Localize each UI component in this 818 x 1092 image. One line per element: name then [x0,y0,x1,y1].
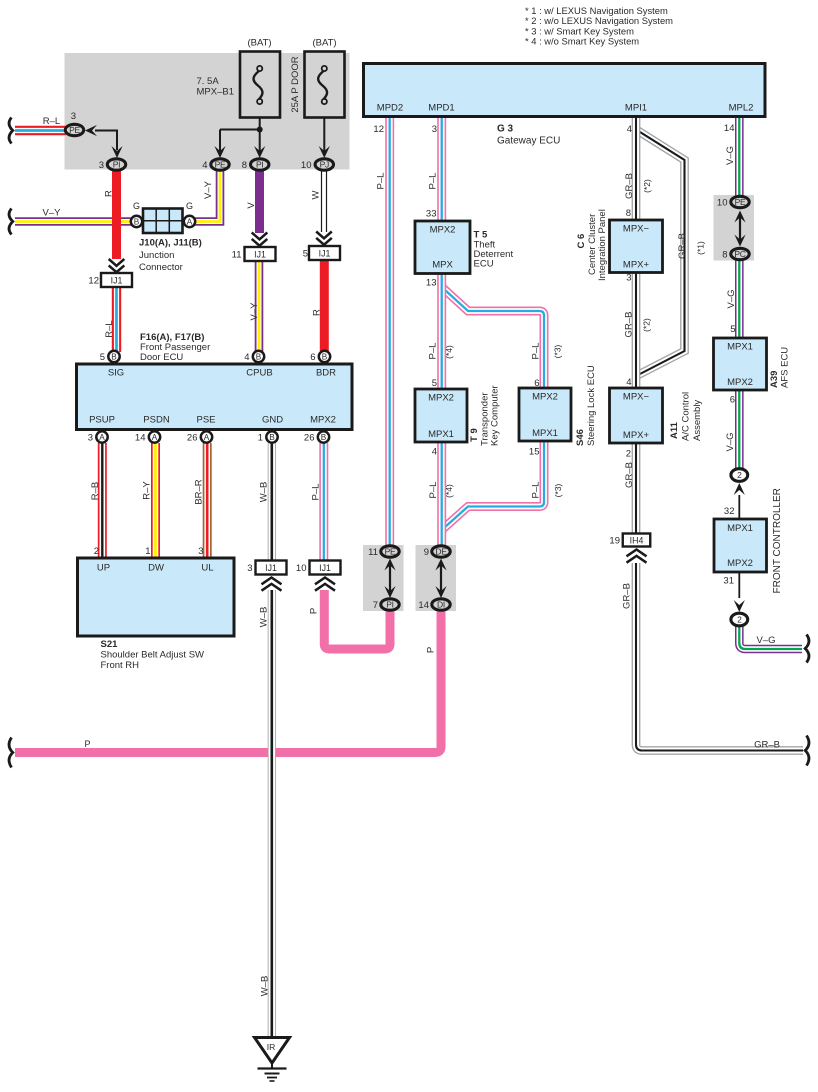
svg-text:6: 6 [730,395,735,406]
svg-text:PI: PI [113,160,120,170]
svg-text:B: B [256,353,262,362]
svg-text:(BAT): (BAT) [312,38,336,49]
wire link PE (3) to PI (3) [95,131,117,151]
connector PI (3) [107,159,125,170]
svg-text:PE: PE [215,160,226,170]
wire V-G from A39 MPX2 to connector 2 [735,390,744,468]
svg-text:IJ1: IJ1 [319,248,331,258]
svg-text:B: B [134,218,140,227]
svg-text:V–Y: V–Y [249,302,260,321]
svg-text:12: 12 [88,276,99,287]
junction dot [257,127,263,133]
svg-text:DW: DW [148,563,164,574]
svg-text:PE: PE [735,197,746,207]
junction connector pin A [184,216,195,227]
svg-text:IJ1: IJ1 [265,563,277,573]
wire V-G from gateway MPL2 to PE (10) [735,118,744,196]
svg-text:IJ1: IJ1 [111,275,123,285]
connector PE (10) [731,196,749,207]
svg-text:(*4): (*4) [444,345,454,359]
svg-text:(*2): (*2) [642,318,652,332]
svg-text:25A P DOOR: 25A P DOOR [290,56,301,112]
svg-text:2: 2 [626,449,631,460]
wire R from IJ1 (5) to ECU pin 6 [320,260,329,352]
svg-text:11: 11 [368,547,378,558]
transponder key computer T9 box [415,389,467,442]
page continuation R-L [9,118,13,144]
svg-text:CPUB: CPUB [246,368,272,379]
connector IJ1 (5) [309,246,340,260]
connector PE (11) [381,546,399,557]
svg-text:PI: PI [256,160,263,170]
svg-text:PE: PE [69,125,80,135]
svg-text:A: A [152,433,158,442]
svg-text:(*2): (*2) [642,179,652,193]
svg-text:P–L: P–L [428,343,439,360]
fuse 25A P DOOR [305,52,345,118]
page continuation P [9,738,13,768]
svg-text:V–G: V–G [725,432,736,451]
connector pass-through block PE/PI (gray background) [363,545,404,611]
arrow into connector 2 lower [734,600,745,612]
link FRONT CONTROLLER pin 31 to connector 2 [738,572,740,598]
connector 2 upper [731,469,748,482]
link PE (10) to PC (8) [739,214,741,243]
svg-text:DI: DI [437,600,445,610]
svg-text:PSUP: PSUP [89,415,115,426]
svg-text:2: 2 [737,470,742,480]
svg-text:B: B [269,433,275,442]
svg-text:5: 5 [303,249,308,260]
svg-text:GR–B: GR–B [754,740,780,751]
svg-text:31: 31 [723,576,734,587]
svg-text:V–G: V–G [725,146,736,165]
wire P from IJ1 (10) to PI (7) [324,590,390,649]
junction connector J10/J11 [143,209,183,234]
A/C control assembly A11 box [610,388,663,443]
svg-text:P: P [84,739,90,749]
svg-text:B: B [322,353,328,362]
svg-text:Shoulder Belt Adjust SW: Shoulder Belt Adjust SW [101,650,205,661]
wire P-L from gateway MPD2 to PE (11) [385,118,394,546]
svg-text:Front RH: Front RH [101,660,140,671]
svg-text:3: 3 [99,160,104,171]
svg-text:MPX1: MPX1 [727,523,753,534]
chevron below IH4 [627,550,647,563]
svg-text:S46: S46 [575,429,586,446]
svg-text:10: 10 [301,160,312,171]
arrow into PC (8) [734,235,745,247]
svg-text:DE: DE [435,547,447,557]
chevron below IJ1 (10) [315,578,335,591]
svg-text:GND: GND [262,415,283,426]
shoulder belt adjust switch S21 box [78,558,235,636]
svg-text:(*3): (*3) [553,483,563,497]
svg-text:Door ECU: Door ECU [140,352,183,363]
arrow into PE (10) [734,211,745,223]
fuse 7.5A MPX-B1 [240,52,280,118]
svg-text:4: 4 [626,377,631,388]
svg-text:MPX1: MPX1 [428,429,454,440]
svg-text:IH4: IH4 [630,535,644,545]
svg-text:UP: UP [97,563,110,574]
wire GR-B from A11 MPX+ to IH4 [632,443,641,534]
wire P-L branch from S46 MPX1 (*3) [442,442,544,531]
svg-text:P–L: P–L [531,343,542,360]
arrow into PE (4) [214,146,225,158]
svg-text:4: 4 [244,352,249,363]
svg-text:3: 3 [247,563,252,574]
svg-text:R: R [312,309,323,316]
svg-text:UL: UL [201,563,213,574]
svg-text:MPX1: MPX1 [532,428,558,439]
svg-text:G: G [133,201,140,211]
junction block (gray background) [65,53,350,170]
svg-text:* 4 : w/o Smart Key System: * 4 : w/o Smart Key System [525,35,639,46]
svg-text:10: 10 [717,198,728,209]
svg-text:C 6: C 6 [576,234,587,249]
svg-text:5: 5 [100,352,105,363]
svg-text:3: 3 [432,124,437,135]
svg-text:8: 8 [626,208,631,219]
svg-text:26: 26 [304,433,315,444]
svg-text:MPD1: MPD1 [428,103,454,114]
svg-text:V–G: V–G [726,289,737,308]
svg-text:8: 8 [242,160,247,171]
svg-text:FRONT CONTROLLER: FRONT CONTROLLER [772,488,783,593]
chevron into IJ1 (5) [316,232,332,245]
svg-text:Steering Lock ECU: Steering Lock ECU [586,365,597,446]
svg-text:MPX−: MPX− [623,392,650,403]
ECU pin B (1) [266,431,277,442]
svg-text:Gateway ECU: Gateway ECU [497,136,560,147]
svg-text:PJ: PJ [320,160,329,170]
svg-text:PC: PC [734,249,745,259]
svg-text:1: 1 [145,546,150,557]
svg-text:W–B: W–B [259,607,270,628]
svg-text:V: V [246,202,257,209]
wire W from PJ (10) to IJ1 (5) [321,170,327,232]
svg-text:R: R [104,190,115,197]
connector 2 lower [731,613,748,626]
svg-text:MPX+: MPX+ [623,260,650,271]
wire W-B from IJ1 (3) to ground [268,590,276,1038]
svg-text:19: 19 [609,536,620,547]
svg-text:A: A [99,433,105,442]
ECU pin B (6) [319,351,330,362]
svg-text:4: 4 [202,160,207,171]
wire R-L to PE (3) [15,126,66,135]
svg-text:(*3): (*3) [553,344,563,358]
svg-text:W–B: W–B [259,482,270,503]
svg-text:(*1): (*1) [696,241,706,255]
svg-text:MPD2: MPD2 [377,103,403,114]
connector PC (8) [731,248,749,259]
svg-text:BDR: BDR [316,368,336,379]
svg-text:GR–B: GR–B [622,583,633,609]
steering lock ECU S46 box [519,388,571,441]
svg-text:PSE: PSE [196,415,215,426]
page continuation GR-B [805,736,809,766]
svg-text:2: 2 [737,615,742,625]
connector PJ (10) [315,159,333,170]
arrow into PI (3) [111,146,122,158]
fuse P DOOR lead to PJ (10) [323,105,325,152]
svg-text:GR–B: GR–B [624,312,635,338]
connector DE (9) [432,546,450,557]
svg-text:12: 12 [373,124,384,135]
svg-text:(BAT): (BAT) [247,38,271,49]
chevron into IJ1 (12) [109,259,125,272]
arrow into PE (3) [85,125,97,136]
wire V-Y from PE (4) to junction connector A [195,170,221,222]
svg-text:(*4): (*4) [444,484,454,498]
svg-text:V–Y: V–Y [43,208,62,219]
connector DI (14) [432,599,450,610]
svg-text:MPI1: MPI1 [625,103,647,114]
svg-text:Connector: Connector [139,262,183,273]
wire P-L from T5 MPX to DE (9) [437,274,446,547]
arrow into DE (9) [435,559,446,571]
connector PI (7) [381,599,399,610]
wire GR-B from IH4 to page edge [636,563,803,751]
svg-text:MPL2: MPL2 [729,103,754,114]
svg-text:14: 14 [135,433,146,444]
svg-text:13: 13 [426,278,437,289]
wire R from PI (3) to IJ1 (12) [112,170,121,259]
svg-text:G: G [186,201,193,211]
svg-text:3: 3 [626,273,631,284]
svg-text:PI: PI [386,600,393,610]
arrow into DI (14) [435,586,446,598]
svg-text:5: 5 [432,378,437,389]
wire V-G from PC (8) to A39 MPX1 [735,261,744,339]
svg-text:26: 26 [187,433,198,444]
svg-text:PSDN: PSDN [143,415,170,426]
svg-text:IJ1: IJ1 [319,563,331,573]
svg-text:3: 3 [88,433,93,444]
ECU pin A (14) [149,431,160,442]
AFS ECU A39 box [714,338,767,390]
arrow into PJ (10) [319,146,330,158]
svg-text:W–B: W–B [260,976,271,997]
svg-text:MPX2: MPX2 [430,225,456,236]
svg-text:4: 4 [432,447,437,458]
svg-text:P: P [309,608,320,614]
svg-text:MPX: MPX [432,260,453,271]
svg-text:P–L: P–L [531,482,542,499]
svg-text:A: A [204,433,210,442]
svg-text:MPX2: MPX2 [428,393,454,404]
svg-text:P–L: P–L [428,173,439,190]
ground IR [255,1038,290,1082]
link connector 2 to FRONT CONTROLLER pin 32 [738,495,740,519]
wire R-B from ECU PSUP to S21 UP [98,443,107,558]
svg-text:MPX2: MPX2 [727,377,753,388]
center cluster integration panel C6 box [610,220,663,273]
arrow into PI (7) [384,586,395,598]
svg-text:Assembly: Assembly [692,400,703,441]
wire GR-B bypass branch (*1) [636,130,685,376]
svg-text:R–L: R–L [43,116,60,127]
wire R-Y from ECU PSDN to S21 DW [151,443,160,558]
wire W-B from ECU GND to IJ1 (3) [268,443,276,561]
svg-text:PE: PE [385,547,396,557]
svg-text:P: P [426,647,437,653]
wire GR-B from C6 MPX+ to A11 MPX- [632,273,641,389]
svg-text:A/C Control: A/C Control [681,392,692,441]
svg-text:5: 5 [730,324,735,335]
svg-text:G 3: G 3 [497,124,514,135]
svg-text:GR–B: GR–B [624,173,635,199]
svg-text:Junction: Junction [139,250,174,261]
svg-text:A: A [187,218,193,227]
svg-text:MPX2: MPX2 [310,415,336,426]
connector PE (4) [211,159,229,170]
svg-text:14: 14 [418,600,429,611]
svg-text:V–G: V–G [756,635,775,646]
chevron into IJ1 (11) [252,233,268,246]
svg-text:GR–B: GR–B [677,233,688,259]
svg-text:A11: A11 [669,421,680,439]
svg-text:A39: A39 [769,371,780,388]
page continuation V-G [805,635,809,663]
arrow into connector 2 upper [734,483,745,495]
ECU pin A (3) [96,431,107,442]
page continuation V-Y [9,209,13,235]
svg-text:R–L: R–L [104,320,115,337]
svg-text:10: 10 [296,563,307,574]
wire P-L branch to S46 MPX2 (*3) [442,287,544,388]
wire V from PI (8) to IJ1 (11) [255,170,264,233]
junction connector pin B [131,216,142,227]
connector pass-through block PE/PC (gray background) [714,195,755,261]
wire BR-R from ECU PSE to S21 UL [203,443,212,558]
arrow into PE (11) [384,559,395,571]
fuse MPX-B1 lead to PE (4) and PI (8) [220,105,260,152]
ECU pin B (5) [108,351,119,362]
svg-text:B: B [321,433,327,442]
svg-text:ECU: ECU [474,259,494,270]
svg-text:S21: S21 [101,639,119,650]
svg-text:Key Computer: Key Computer [490,385,501,446]
wire V-Y from IJ1 (11) to ECU pin 4 [255,261,264,353]
theft deterrent ECU T5 box [415,221,470,274]
connector IJ1 (11) [245,247,276,261]
svg-text:P–L: P–L [428,482,439,499]
svg-text:MPX+: MPX+ [623,430,650,441]
svg-text:3: 3 [71,111,76,122]
wire R-L from IJ1 (12) to ECU pin 5 [112,287,121,353]
svg-text:8: 8 [722,250,727,261]
svg-text:14: 14 [724,123,735,134]
svg-text:R–Y: R–Y [142,481,153,500]
svg-text:MPX−: MPX− [623,224,650,235]
svg-text:1: 1 [258,433,263,444]
svg-text:J10(A), J11(B): J10(A), J11(B) [139,238,202,249]
svg-text:7. 5A: 7. 5A [197,76,220,87]
svg-text:MPX–B1: MPX–B1 [197,87,235,98]
svg-text:R–B: R–B [90,482,101,500]
gateway ECU G3 box [364,64,766,117]
svg-text:GR–B: GR–B [624,462,635,488]
svg-text:33: 33 [426,209,437,220]
ECU pin B (26) [318,431,329,442]
svg-text:W: W [311,190,322,199]
svg-text:7: 7 [373,600,378,611]
connector IJ1 (10) [310,561,341,575]
ECU pin A (26) [201,431,212,442]
svg-text:6: 6 [534,378,539,389]
connector PI (8) [251,159,269,170]
link PE (11) to PI (7) [389,562,391,594]
svg-text:11: 11 [232,250,242,261]
wire P-L from gateway MPD1 to T5 MPX2 [437,118,446,221]
svg-text:BR–R: BR–R [194,479,205,504]
front passenger door ECU F16/F17 box [77,364,353,430]
svg-text:3: 3 [198,546,203,557]
connector pass-through block DE/DI (gray background) [416,545,457,611]
svg-text:P–L: P–L [311,484,322,501]
front controller box [714,519,767,572]
link DE (9) to DI (14) [440,562,442,594]
svg-text:MPX2: MPX2 [727,558,753,569]
svg-text:IR: IR [267,1042,276,1052]
svg-text:V–Y: V–Y [203,180,214,199]
svg-text:4: 4 [627,124,632,135]
svg-text:6: 6 [310,352,315,363]
svg-text:AFS ECU: AFS ECU [780,347,791,388]
wire P-L from ECU MPX2 to IJ1 (10) [319,443,328,561]
svg-text:SIG: SIG [108,368,124,379]
chevron below IJ1 (3) [262,578,282,591]
connector PE (3) [65,124,83,135]
svg-text:MPX2: MPX2 [532,392,558,403]
svg-text:P–L: P–L [376,173,387,190]
connector IJ1 (12) [101,273,132,287]
svg-text:Integration Panel: Integration Panel [597,209,608,281]
connector IH4 (19) [623,534,651,547]
svg-text:MPX1: MPX1 [727,342,753,353]
wire V-G from connector 2 to page edge [739,626,802,649]
svg-text:9: 9 [424,547,429,558]
svg-text:15: 15 [529,447,540,458]
arrow into PI (8) [254,146,265,158]
svg-text:32: 32 [724,506,735,517]
wire P from page edge to DI (14) [15,610,441,753]
svg-text:B: B [111,353,117,362]
svg-text:IJ1: IJ1 [254,249,266,259]
connector IJ1 (3) [256,561,287,575]
wire V-Y from page edge to junction connector B [15,217,132,226]
ECU pin B (4) [253,351,264,362]
svg-text:T 9: T 9 [469,428,480,442]
wire GR-B from gateway MPI1 to C6 MPX- [632,118,641,220]
svg-text:2: 2 [94,546,99,557]
